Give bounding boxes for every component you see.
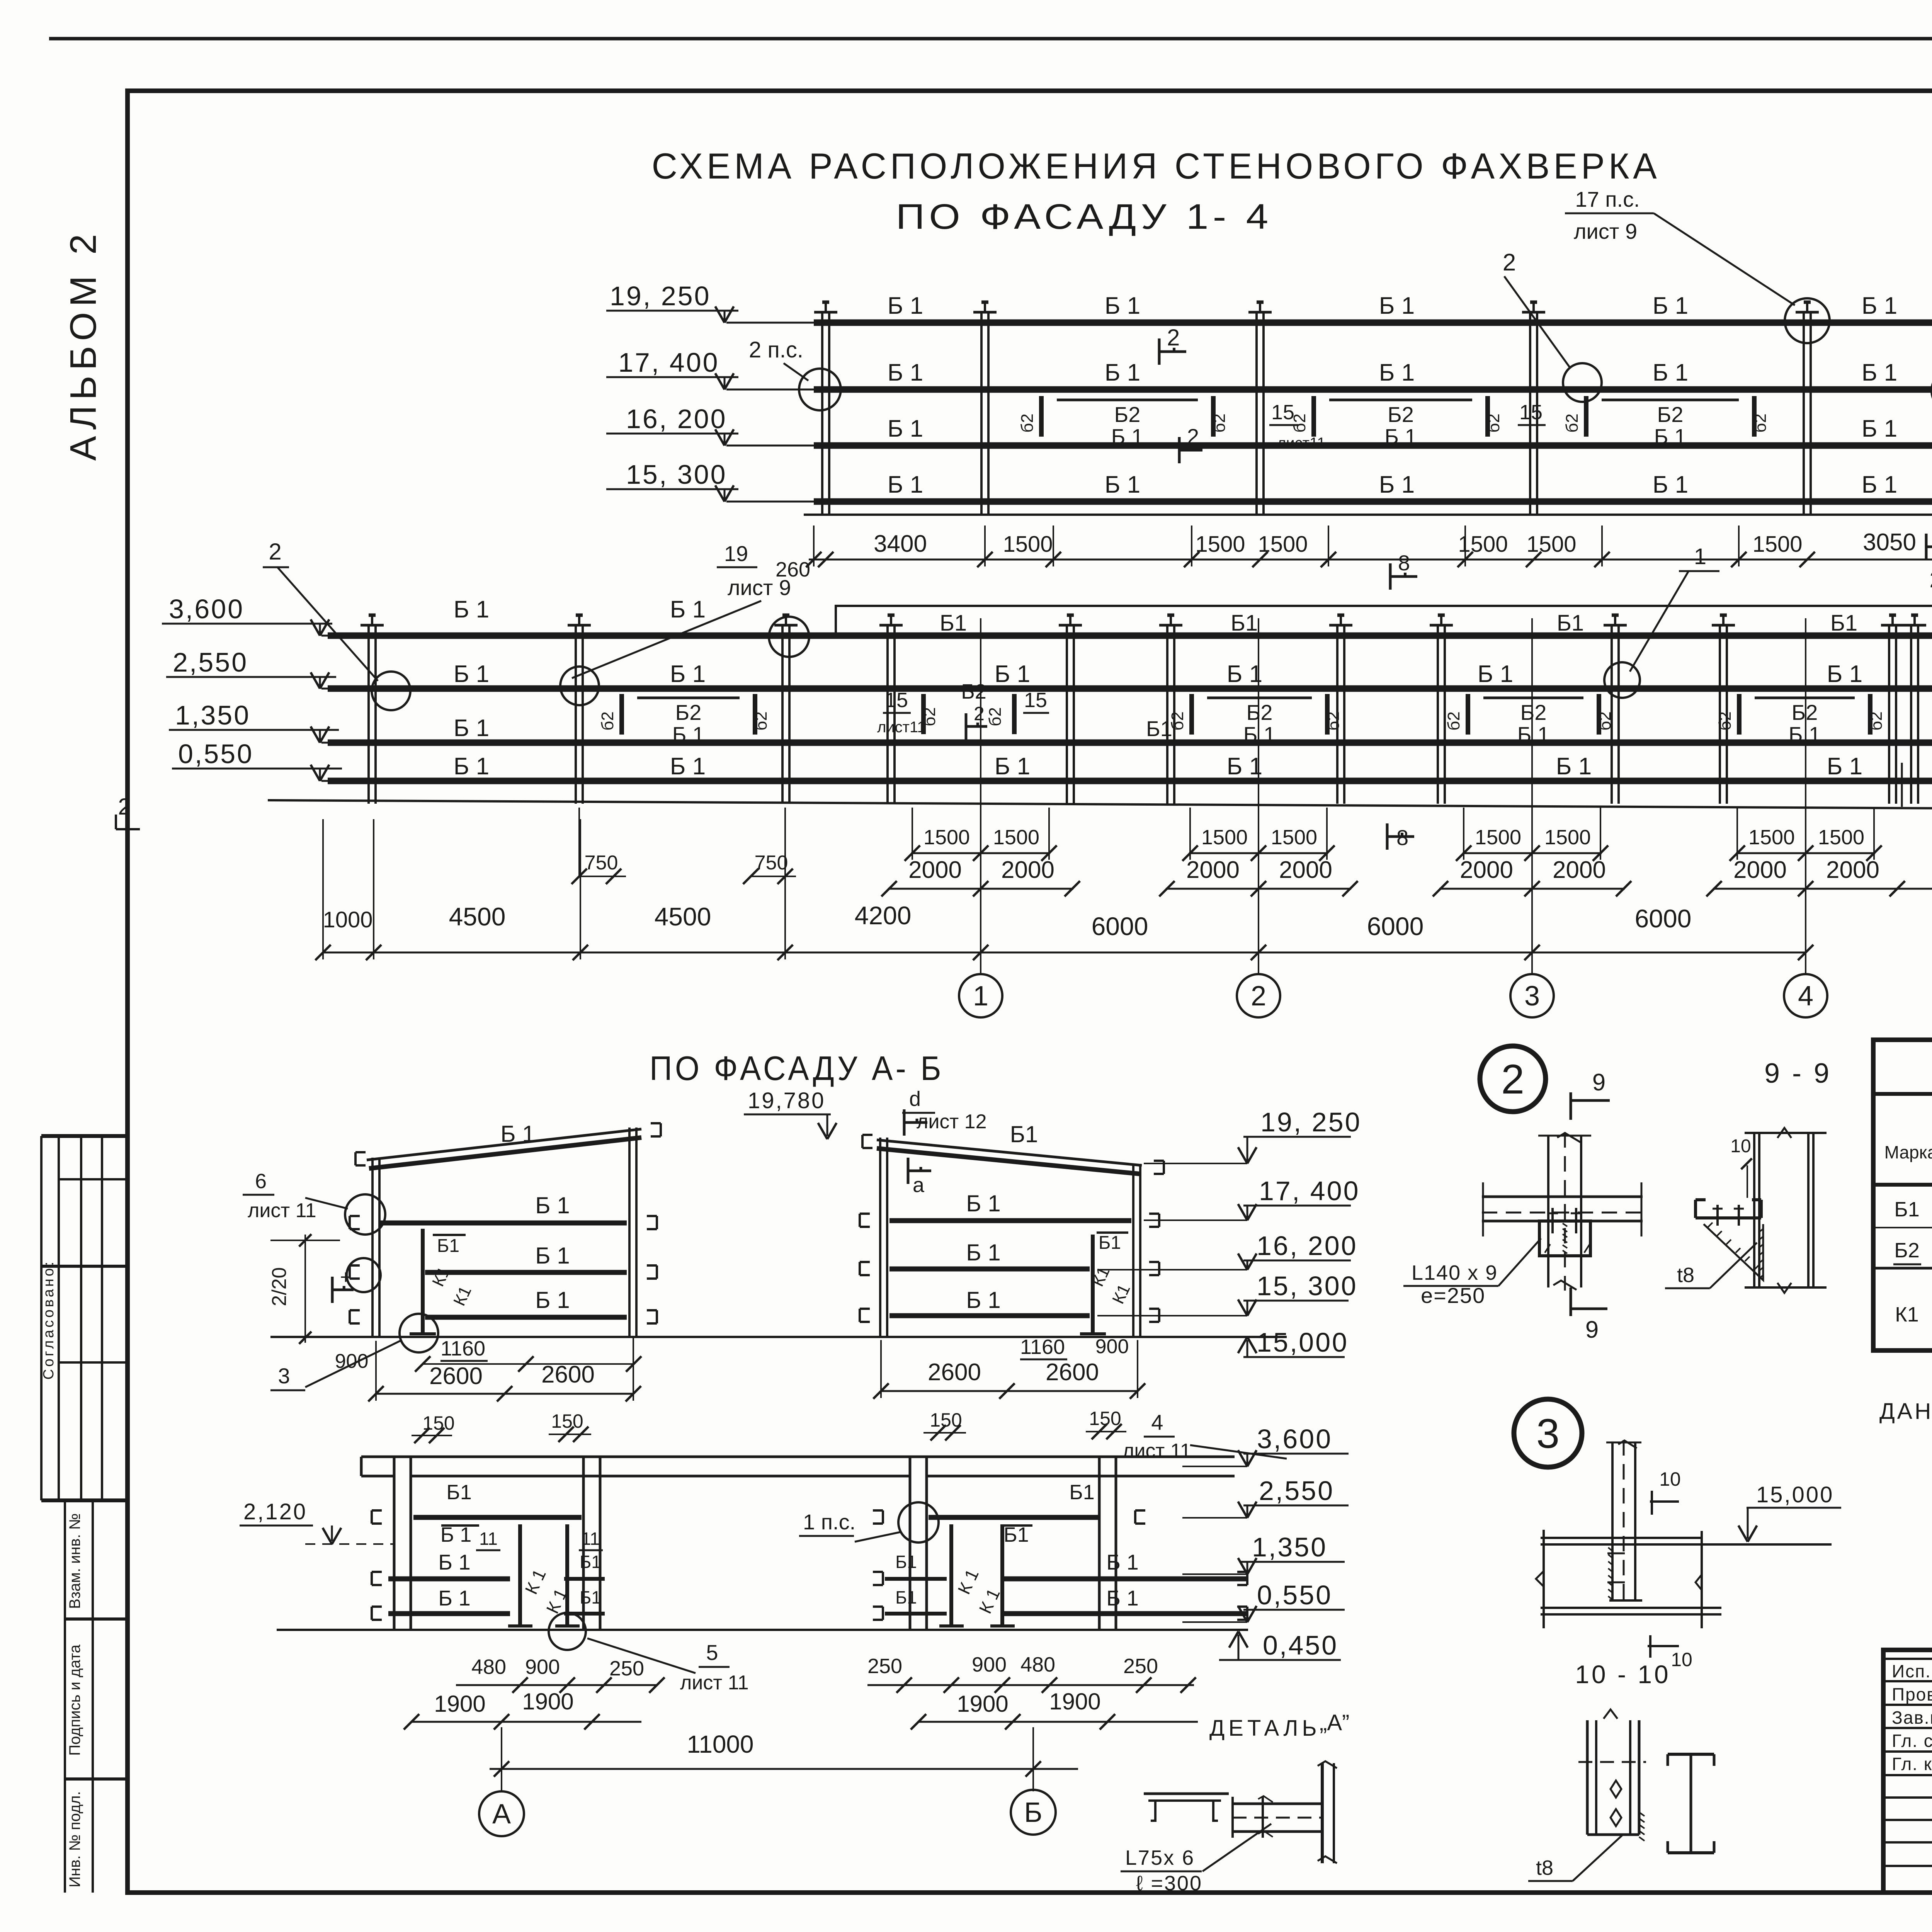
svg-text:2: 2 <box>1251 981 1266 1012</box>
svg-text:6000: 6000 <box>1367 912 1424 940</box>
svg-text:Б 1: Б 1 <box>1105 359 1140 386</box>
svg-text:2,550: 2,550 <box>1259 1476 1334 1506</box>
svg-text:лист 11: лист 11 <box>1122 1440 1191 1462</box>
gable2 right column <box>1132 1164 1134 1337</box>
svg-text:Б2: Б2 <box>675 700 702 724</box>
svg-text:1900: 1900 <box>434 1691 485 1717</box>
svg-text:6000: 6000 <box>1635 904 1692 933</box>
svg-text:10: 10 <box>1730 1136 1751 1156</box>
svg-text:б2: б2 <box>752 711 770 731</box>
section flag 7 (on dim row) <box>1925 534 1928 560</box>
svg-text:Б1: Б1 <box>437 1236 459 1256</box>
svg-text:1500: 1500 <box>1258 532 1308 557</box>
element table outer border <box>1873 1040 1932 1350</box>
lower elevation fachwerk post 11 <box>1888 625 1890 804</box>
svg-text:Б1: Б1 <box>1099 1233 1121 1253</box>
bay1 inner post K1 b <box>565 1524 569 1626</box>
svg-text:Б 1: Б 1 <box>966 1190 1000 1216</box>
gable1 inner post K1 <box>421 1229 425 1334</box>
bay1 beams <box>413 1515 582 1520</box>
lower elevation Б2 block 1 <box>637 697 740 699</box>
svg-text:15,000: 15,000 <box>1756 1482 1834 1507</box>
svg-text:Б 1: Б 1 <box>1827 661 1862 687</box>
svg-text:Б 1: Б 1 <box>1653 293 1688 319</box>
svg-text:Б 1: Б 1 <box>888 415 923 442</box>
деталь А drawing <box>1144 1793 1229 1795</box>
svg-text:ℓ =300: ℓ =300 <box>1136 1872 1202 1895</box>
svg-text:1160: 1160 <box>440 1337 485 1360</box>
upper elevation Б2 block 2 <box>1329 399 1472 401</box>
lower elevation fachwerk post 6 <box>1166 625 1168 804</box>
svg-text:Б 1: Б 1 <box>1478 661 1513 687</box>
svg-text:250: 250 <box>609 1657 644 1680</box>
svg-text:б2: б2 <box>1168 711 1187 731</box>
svg-text:Б 1: Б 1 <box>1105 471 1140 498</box>
svg-text:2: 2 <box>1503 249 1516 276</box>
svg-text:Инв. № подл.: Инв. № подл. <box>66 1791 83 1887</box>
table header bottom line <box>1873 1183 1932 1187</box>
lower elevation dim row 1500/1500 <box>911 852 1050 854</box>
lower elevation Б2 block 4 <box>1755 697 1855 699</box>
bay2 inner post K1 b <box>1000 1524 1004 1626</box>
svg-text:б2: б2 <box>1444 711 1463 731</box>
svg-text:2: 2 <box>1187 424 1199 449</box>
10-10 I-beam <box>1668 1753 1714 1756</box>
svg-text:Б1: Б1 <box>1231 611 1258 636</box>
lower elevation top beam band outline <box>836 606 1932 636</box>
svg-text:2000: 2000 <box>1279 857 1332 883</box>
upper elevation fachwerk column 1 <box>821 312 823 515</box>
svg-text:б2: б2 <box>1484 413 1503 433</box>
svg-text:Б1: Б1 <box>1010 1121 1038 1147</box>
svg-text:480: 480 <box>471 1655 506 1679</box>
svg-text:б2: б2 <box>1324 711 1343 731</box>
gable1 circle note mid <box>347 1258 381 1292</box>
node 2 crossing detail <box>1547 1135 1549 1287</box>
upper elevation Б2 block 1 <box>1057 399 1198 401</box>
svg-text:9: 9 <box>1585 1316 1599 1343</box>
gable1 left column <box>371 1158 374 1337</box>
svg-text:Б 1: Б 1 <box>995 753 1030 780</box>
title block outer border <box>1883 1650 1932 1893</box>
svg-text:1500: 1500 <box>1271 826 1317 849</box>
detail 10-10 drawing <box>1586 1720 1589 1835</box>
svg-text:2/20: 2/20 <box>268 1267 291 1306</box>
svg-text:Б 1: Б 1 <box>1517 722 1549 747</box>
svg-text:15: 15 <box>885 689 908 712</box>
facade A-B ground line <box>270 1336 1287 1338</box>
svg-text:Б1: Б1 <box>895 1552 917 1572</box>
svg-text:900: 900 <box>972 1653 1007 1676</box>
upper elevation base line <box>804 514 1932 516</box>
svg-text:А: А <box>492 1799 511 1830</box>
svg-text:Подпись и дата: Подпись и дата <box>66 1644 83 1755</box>
svg-text:Б1: Б1 <box>580 1552 601 1572</box>
approval stamp boxes (Согласовано) <box>41 1134 126 1138</box>
gable1 beam level 17.4 <box>381 1221 627 1226</box>
svg-text:19, 250: 19, 250 <box>610 281 711 311</box>
9-9 channel Б1 <box>1696 1216 1761 1219</box>
svg-text:2: 2 <box>1167 325 1180 350</box>
svg-text:19: 19 <box>724 541 748 566</box>
section flag 9 (bottom) <box>1570 1287 1572 1316</box>
gable1 beam level 16.2 <box>425 1270 627 1275</box>
svg-text:2: 2 <box>269 539 281 565</box>
svg-text:Б2: Б2 <box>1894 1239 1919 1262</box>
svg-text:Б 1: Б 1 <box>966 1287 1000 1313</box>
upper elevation fachwerk column 5 <box>1803 312 1805 515</box>
bay1 right wide column <box>582 1457 585 1630</box>
gable2 left column <box>879 1138 881 1337</box>
svg-text:10: 10 <box>1659 1468 1681 1490</box>
svg-text:t8: t8 <box>1536 1856 1553 1879</box>
svg-text:2000: 2000 <box>1460 857 1513 883</box>
svg-text:Б 1: Б 1 <box>1862 415 1897 442</box>
svg-text:15: 15 <box>1271 401 1294 424</box>
bay2 beams <box>929 1515 1099 1520</box>
upper elevation fachwerk column 4 <box>1529 312 1531 515</box>
svg-text:6: 6 <box>255 1170 267 1193</box>
svg-text:б2: б2 <box>1716 711 1735 731</box>
bay2 inner post K1 a <box>949 1524 953 1626</box>
section flag 9 (top) <box>1570 1092 1572 1120</box>
svg-text:1500: 1500 <box>1475 826 1521 849</box>
svg-text:2000: 2000 <box>1186 857 1240 883</box>
svg-text:900: 900 <box>1095 1335 1129 1358</box>
gable1 beam level 15.3 <box>425 1315 627 1320</box>
svg-text:Пров.: Пров. <box>1892 1684 1932 1704</box>
svg-text:Б 1: Б 1 <box>1243 722 1276 747</box>
svg-text:1500: 1500 <box>1458 532 1508 557</box>
svg-text:Зав.гр: Зав.гр <box>1892 1708 1932 1728</box>
svg-text:2: 2 <box>974 703 985 724</box>
svg-text:4: 4 <box>1798 981 1813 1012</box>
svg-text:1500: 1500 <box>1818 826 1864 849</box>
svg-text:Б 1: Б 1 <box>1227 753 1262 780</box>
lower elevation Б2 block 2 <box>1207 697 1312 699</box>
svg-text:19, 250: 19, 250 <box>1260 1107 1362 1137</box>
detail 9-9 drawing <box>1753 1133 1755 1287</box>
svg-text:Б: Б <box>1024 1797 1042 1828</box>
svg-text:Б 1: Б 1 <box>1379 359 1415 386</box>
svg-text:Б 1: Б 1 <box>1653 359 1688 386</box>
svg-text:1: 1 <box>1694 544 1706 569</box>
svg-text:б2: б2 <box>1867 711 1886 731</box>
svg-text:150: 150 <box>551 1410 583 1432</box>
svg-text:900: 900 <box>335 1350 369 1372</box>
svg-text:2000: 2000 <box>908 857 962 883</box>
svg-text:Б2: Б2 <box>1247 700 1273 724</box>
svg-text:750: 750 <box>585 852 618 874</box>
svg-text:11: 11 <box>581 1529 600 1549</box>
деталь А end plate <box>1321 1763 1324 1863</box>
svg-text:Б 1: Б 1 <box>888 293 923 319</box>
svg-text:3: 3 <box>1536 1410 1560 1457</box>
svg-text:17, 400: 17, 400 <box>1259 1176 1360 1206</box>
svg-text:260: 260 <box>1930 567 1932 592</box>
lower elevation fachwerk post 9 <box>1611 625 1613 804</box>
gable2 beam level 17.4 <box>889 1218 1131 1223</box>
svg-text:2600: 2600 <box>928 1359 981 1386</box>
svg-text:1900: 1900 <box>1049 1689 1100 1714</box>
svg-text:2600: 2600 <box>429 1363 483 1389</box>
svg-text:d: d <box>909 1087 921 1111</box>
svg-text:Б 1: Б 1 <box>670 661 706 687</box>
svg-text:750: 750 <box>755 852 788 874</box>
svg-text:900: 900 <box>525 1655 560 1679</box>
svg-text:1: 1 <box>973 981 988 1012</box>
lower elevation fachwerk post 7 <box>1336 625 1338 804</box>
lower elevation main dim row <box>323 952 1806 954</box>
svg-text:Б 1: Б 1 <box>438 1550 470 1574</box>
svg-text:0,450: 0,450 <box>1263 1630 1338 1660</box>
svg-text:лист 11: лист 11 <box>680 1672 749 1694</box>
svg-text:L140 x 9: L140 x 9 <box>1412 1261 1498 1284</box>
svg-text:Б 1: Б 1 <box>1379 471 1415 498</box>
section flag 8 (lower) <box>1386 823 1389 850</box>
gable1 circle note upper <box>345 1194 385 1235</box>
svg-text:СХЕМА РАСПОЛОЖЕНИЯ СТЕНОВОГО: СХЕМА РАСПОЛОЖЕНИЯ СТЕНОВОГО ФАХВЕРКА <box>652 146 1661 186</box>
svg-text:Б 1: Б 1 <box>672 722 704 747</box>
svg-text:1000: 1000 <box>323 907 372 932</box>
lower elevation fachwerk post 5 <box>1066 625 1068 804</box>
svg-text:1500: 1500 <box>1544 826 1591 849</box>
svg-text:Б 1: Б 1 <box>1106 1550 1138 1574</box>
svg-text:2000: 2000 <box>1001 857 1054 883</box>
svg-text:б2: б2 <box>1751 413 1770 433</box>
node 2 bubble <box>1480 1046 1546 1112</box>
svg-text:Б1: Б1 <box>580 1587 601 1607</box>
lower elevation beams Б1 (4 levels) <box>328 633 1932 639</box>
upper elevation Б2 block 3 <box>1602 399 1739 401</box>
section flag 10 (bottom) <box>1649 1635 1651 1658</box>
node 2 plate <box>1539 1221 1590 1256</box>
svg-text:1500: 1500 <box>1752 532 1802 557</box>
svg-text:1500: 1500 <box>1195 532 1245 557</box>
svg-text:11000: 11000 <box>687 1730 753 1758</box>
svg-text:1500: 1500 <box>1526 532 1576 557</box>
svg-text:t8: t8 <box>1677 1264 1694 1287</box>
svg-text:Б 1: Б 1 <box>1789 722 1821 747</box>
grid bubble 3 <box>1510 974 1554 1017</box>
node 3 detail column <box>1611 1442 1614 1600</box>
svg-text:Б1: Б1 <box>895 1587 917 1607</box>
grid axis lines (1-4) through lower elevation <box>980 618 981 974</box>
svg-text:2: 2 <box>118 794 131 820</box>
table row dividers <box>1873 1227 1932 1228</box>
lower elevation fachwerk post 8 <box>1437 625 1439 804</box>
svg-text:Б 1: Б 1 <box>535 1192 570 1218</box>
svg-text:1900: 1900 <box>522 1689 573 1714</box>
svg-text:Б2: Б2 <box>1388 402 1414 427</box>
svg-text:2600: 2600 <box>541 1361 595 1388</box>
svg-text:Б 1: Б 1 <box>670 596 706 623</box>
svg-text:Б 1: Б 1 <box>454 661 489 687</box>
svg-text:Б 1: Б 1 <box>1862 293 1897 319</box>
svg-text:Б 1: Б 1 <box>454 596 489 623</box>
svg-text:3,600: 3,600 <box>1257 1424 1332 1454</box>
svg-text:2000: 2000 <box>1553 857 1606 883</box>
svg-text:Б 1: Б 1 <box>500 1121 535 1147</box>
svg-text:Б1: Б1 <box>1830 611 1857 636</box>
svg-text:1160: 1160 <box>1020 1335 1065 1359</box>
svg-text:Б 1: Б 1 <box>1654 424 1686 449</box>
svg-text:Б 1: Б 1 <box>995 661 1030 687</box>
svg-text:лист 12: лист 12 <box>917 1111 987 1133</box>
svg-text:17, 400: 17, 400 <box>618 347 719 378</box>
svg-text:Б 1: Б 1 <box>454 715 489 742</box>
svg-text:2600: 2600 <box>1046 1359 1099 1386</box>
svg-text:Б 1: Б 1 <box>1556 753 1592 780</box>
svg-text:Б 1: Б 1 <box>1379 293 1415 319</box>
svg-text:б2: б2 <box>920 707 939 726</box>
svg-text:Б1: Б1 <box>1557 611 1584 636</box>
svg-text:Б 1: Б 1 <box>1105 293 1140 319</box>
lower elevation dim row 2000/2000 <box>888 888 1073 890</box>
lower elevation fachwerk post 2 <box>575 625 577 804</box>
svg-text:1 п.с.: 1 п.с. <box>803 1510 855 1534</box>
svg-text:1,350: 1,350 <box>1252 1532 1327 1562</box>
svg-text:3,600: 3,600 <box>169 594 244 624</box>
svg-text:б2: б2 <box>1595 711 1614 731</box>
lower elevation base line <box>268 800 1932 808</box>
svg-text:9 - 9: 9 - 9 <box>1764 1058 1832 1089</box>
svg-text:Марка: Марка <box>1884 1142 1932 1162</box>
gable1 roof line upper <box>367 1129 641 1160</box>
svg-text:4: 4 <box>1151 1410 1163 1434</box>
svg-text:2,550: 2,550 <box>173 647 248 677</box>
svg-text:Б1: Б1 <box>1894 1198 1919 1221</box>
bay2 left wide column <box>909 1457 912 1630</box>
svg-text:L75x 6: L75x 6 <box>1125 1846 1195 1869</box>
svg-text:Б 1: Б 1 <box>1106 1586 1138 1610</box>
svg-text:Б 1: Б 1 <box>670 753 706 780</box>
svg-text:0,550: 0,550 <box>1257 1580 1332 1610</box>
svg-text:Б1: Б1 <box>940 611 967 636</box>
svg-text:9: 9 <box>1592 1069 1605 1096</box>
svg-text:3: 3 <box>278 1364 290 1388</box>
svg-text:Б2: Б2 <box>1657 402 1684 427</box>
section flag 2 (in Б2 block) <box>1178 437 1181 463</box>
svg-text:5: 5 <box>706 1640 718 1665</box>
svg-text:3400: 3400 <box>874 531 927 557</box>
lower elevation fachwerk post 1 <box>367 625 370 804</box>
svg-text:10: 10 <box>1671 1649 1692 1670</box>
svg-text:лист 9: лист 9 <box>728 575 791 600</box>
svg-text:1900: 1900 <box>957 1691 1008 1717</box>
svg-text:Б 1: Б 1 <box>1111 424 1143 449</box>
svg-text:1500: 1500 <box>923 826 970 849</box>
flag a (left) <box>331 1277 334 1303</box>
bay1 left wide column <box>393 1457 396 1630</box>
svg-text:ПО ФАСАДУ А- Б: ПО ФАСАДУ А- Б <box>650 1049 944 1087</box>
svg-text:Исп.: Исп. <box>1892 1661 1931 1681</box>
gable2 inner post K1 <box>1091 1235 1095 1334</box>
node 3 bubble <box>1514 1399 1582 1467</box>
svg-text:К1: К1 <box>1895 1303 1919 1326</box>
svg-text:б2: б2 <box>986 707 1005 726</box>
svg-text:16, 200: 16, 200 <box>626 404 727 434</box>
gable1 circle note base <box>400 1314 438 1352</box>
svg-text:10 - 10: 10 - 10 <box>1575 1660 1670 1689</box>
gable2 roof line upper <box>877 1140 1142 1165</box>
gable2 roof line lower <box>877 1148 1140 1174</box>
svg-text:1500: 1500 <box>993 826 1039 849</box>
circle on lower elevation (leader 19) <box>560 667 599 705</box>
section flag 10 (top) <box>1651 1491 1653 1515</box>
svg-text:Б 1: Б 1 <box>888 471 923 498</box>
svg-text:1,350: 1,350 <box>175 700 250 730</box>
svg-text:Б 1: Б 1 <box>535 1243 570 1269</box>
svg-text:Б 1: Б 1 <box>888 359 923 386</box>
upper elevation beams Б1 (4 levels) <box>814 320 1932 326</box>
outer sheet top line <box>49 37 1932 41</box>
svg-text:4200: 4200 <box>855 901 912 930</box>
svg-text:2 п.с.: 2 п.с. <box>749 337 803 362</box>
svg-text:б2: б2 <box>1210 413 1229 433</box>
svg-text:2000: 2000 <box>1826 857 1879 883</box>
svg-text:Б1: Б1 <box>446 1481 471 1504</box>
svg-text:лист 11: лист 11 <box>248 1199 316 1222</box>
svg-text:б2: б2 <box>1563 413 1582 433</box>
svg-text:17 п.с.: 17 п.с. <box>1575 187 1639 211</box>
svg-text:15: 15 <box>1519 401 1543 424</box>
svg-text:Б 1: Б 1 <box>454 753 489 780</box>
lower elevation fachwerk post 12 <box>1910 625 1912 804</box>
svg-text:Б 1: Б 1 <box>1827 753 1862 780</box>
bay2 right wide column <box>1098 1457 1101 1630</box>
svg-text:480: 480 <box>1020 1653 1055 1676</box>
svg-text:11: 11 <box>479 1529 498 1549</box>
svg-text:0,550: 0,550 <box>178 739 253 769</box>
svg-text:Б 1: Б 1 <box>438 1586 470 1610</box>
svg-text:ДЕТАЛЬ: ДЕТАЛЬ <box>1209 1716 1321 1741</box>
node 3 beam band <box>1541 1537 1702 1539</box>
grid bubble 1 <box>959 974 1002 1017</box>
9-9 gusset <box>1704 1224 1763 1280</box>
section flag 2 (top) <box>1158 338 1161 365</box>
svg-text:3050: 3050 <box>1863 529 1916 556</box>
grid bubble А <box>479 1791 524 1836</box>
svg-text:e=250: e=250 <box>1421 1283 1485 1308</box>
svg-text:Б 1: Б 1 <box>1384 424 1417 449</box>
svg-text:2000: 2000 <box>1733 857 1787 883</box>
lower elevation Б2 block 3 <box>1483 697 1583 699</box>
svg-text:Б2: Б2 <box>1520 700 1547 724</box>
svg-text:Взам. инв. №: Взам. инв. № <box>66 1513 83 1609</box>
svg-text:Б 1: Б 1 <box>1862 359 1897 386</box>
upper elevation fachwerk column 3 <box>1255 312 1258 515</box>
svg-text:19,780: 19,780 <box>748 1088 825 1113</box>
svg-text:лист 9: лист 9 <box>1574 219 1637 243</box>
upper elevation fachwerk column 2 <box>980 312 983 515</box>
svg-text:16, 200: 16, 200 <box>1257 1231 1358 1261</box>
circle note 5 at bay1 post base <box>549 1613 586 1650</box>
svg-text:250: 250 <box>867 1655 902 1678</box>
svg-text:Б 1: Б 1 <box>966 1240 1000 1265</box>
svg-text:АЛЬБОМ 2: АЛЬБОМ 2 <box>63 229 104 461</box>
svg-text:a: a <box>913 1173 925 1197</box>
grid bubble 2 <box>1237 974 1280 1017</box>
svg-text:1500: 1500 <box>1201 826 1248 849</box>
svg-text:б2: б2 <box>1018 413 1037 433</box>
gable1 right column <box>628 1128 631 1337</box>
svg-text:Б2: Б2 <box>1792 700 1818 724</box>
svg-text:15,000: 15,000 <box>1257 1327 1349 1357</box>
svg-text:Б2: Б2 <box>1114 402 1141 427</box>
bay1 inner post K1 a <box>518 1524 522 1626</box>
lower storey top slab lines <box>361 1456 1235 1458</box>
